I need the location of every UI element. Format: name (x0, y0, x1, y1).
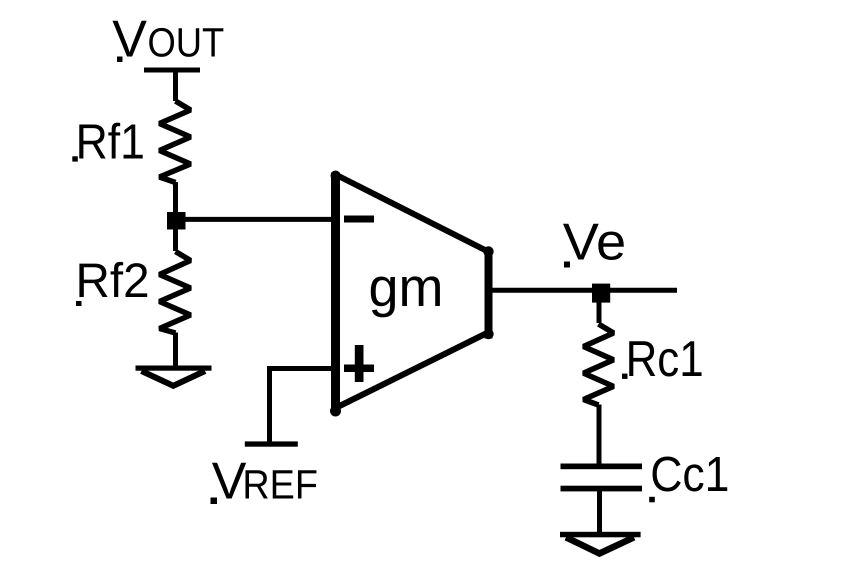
bottom slant edge (337, 333, 489, 408)
svg-text:Ve: Ve (563, 214, 626, 272)
svg-text:Rc1: Rc1 (626, 330, 704, 387)
wire Rf1 to node (173, 182, 178, 214)
svg-text:Cc1: Cc1 (650, 447, 729, 502)
wire plus input to VREF terminal (horizontal) (267, 366, 336, 371)
wire Rc1 to Cc1 (597, 405, 602, 467)
svg-text:gm: gm (369, 256, 444, 318)
wire VREF vertical (267, 369, 272, 445)
ground (right, below Cc1) (560, 532, 641, 554)
resistor Rf2 (160, 252, 191, 334)
node VREF label (211, 452, 318, 510)
resistor Rf2 label (76, 254, 150, 308)
wire Cc1 to ground (597, 491, 602, 534)
svg-text:Rf2: Rf2 (76, 254, 150, 308)
terminal VREF (245, 441, 298, 446)
resistor Rc1 (584, 324, 614, 405)
svg-text:Rf1: Rf1 (76, 114, 145, 169)
resistor Rf1 (160, 101, 191, 183)
resistor Rf1 label (72, 114, 145, 169)
wire node A to op-amp inverting input (185, 217, 336, 222)
op-amp U1 (gm transconductance amp) (330, 171, 494, 417)
node Ve junction (592, 284, 610, 303)
ground (left, below Rf2) (136, 366, 212, 386)
svg-text:VOUT: VOUT (112, 10, 224, 68)
wire VOUT terminal to Rf1 (173, 70, 178, 101)
svg-text:VREF: VREF (212, 452, 318, 510)
left edge (331, 173, 340, 412)
right edge (485, 250, 493, 339)
op-amp plus input symbol (344, 345, 374, 382)
wire Rf2 to ground (173, 333, 178, 369)
resistor Rc1 label (622, 330, 704, 387)
wire op-amp output to Ve (489, 288, 677, 293)
capacitor Cc1 bottom plate (561, 486, 643, 492)
wire node A to Rf2 (173, 229, 178, 251)
node VOUT label (112, 10, 224, 68)
terminal VOUT (144, 68, 200, 73)
op-amp minus input symbol (344, 216, 374, 223)
wire Ve node to Rc1 (597, 302, 602, 323)
capacitor Cc1 label (649, 447, 729, 502)
corner dots (331, 171, 341, 181)
top slant edge (336, 175, 489, 252)
node junction A (Rf1/Rf2/inverting input) (167, 212, 186, 230)
capacitor Cc1 top plate (561, 464, 643, 470)
node Ve label (563, 214, 626, 272)
